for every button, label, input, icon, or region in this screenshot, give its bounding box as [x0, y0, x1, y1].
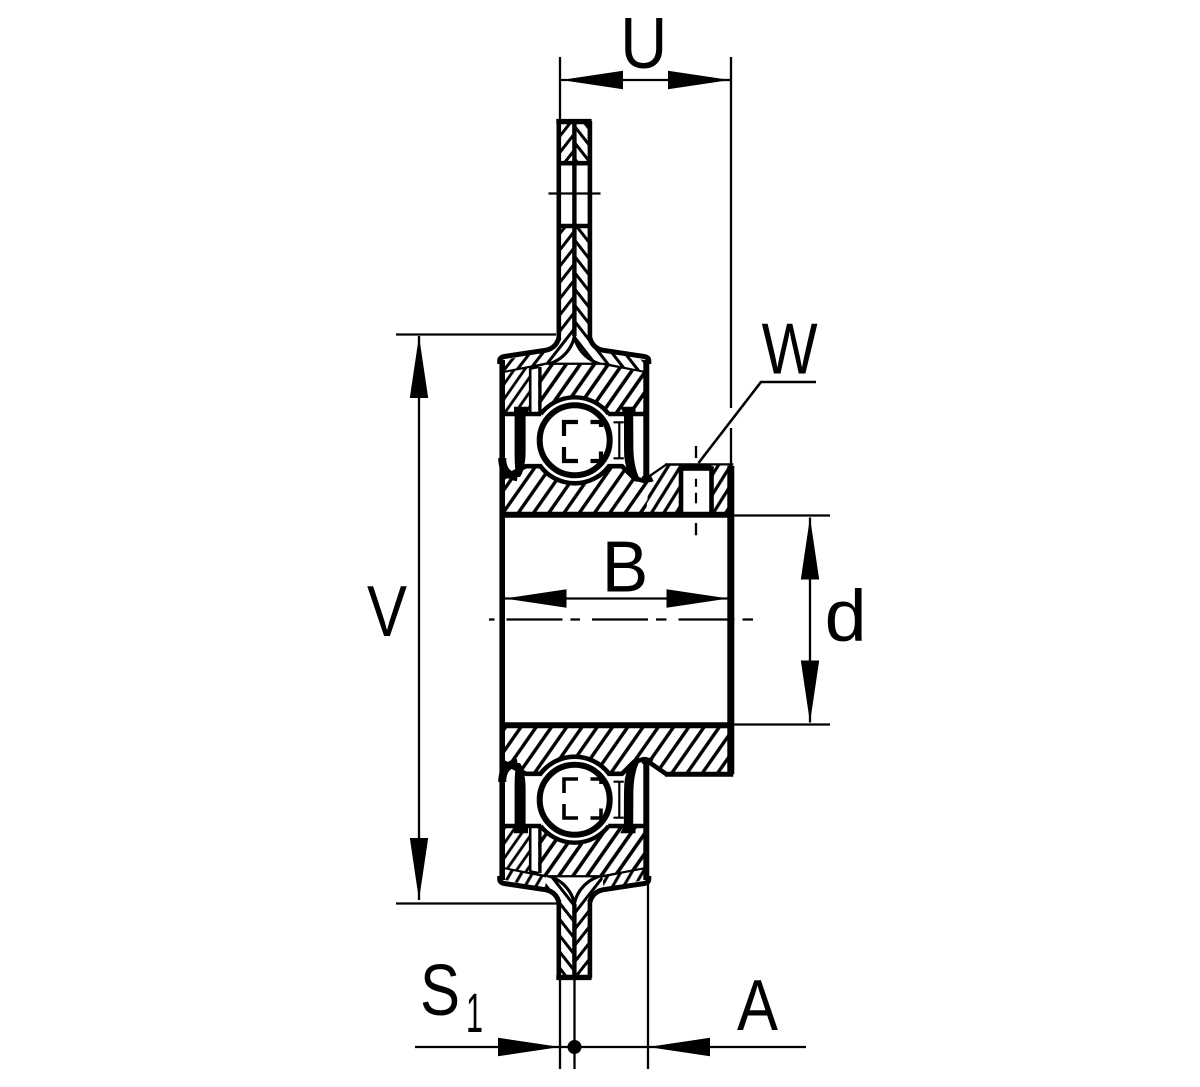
- upper chamber bottom-left dark corner: [502, 458, 517, 477]
- lower bearing top line left segment: [500, 824, 541, 829]
- svg-text:U: U: [620, 4, 667, 84]
- set screw center dashes inside: [695, 479, 697, 504]
- bottom extension line: housing face: [647, 883, 649, 1069]
- svg-text:W: W: [762, 309, 818, 389]
- upper outer raceway arc: [541, 397, 609, 414]
- upper housing outer outline left: [500, 338, 559, 364]
- upper bearing bottom line left segment: [500, 412, 541, 417]
- svg-text:B: B: [602, 528, 649, 608]
- upper ear hatched zone right of screw: [712, 466, 734, 515]
- upper right seal (black): [620, 407, 639, 482]
- upper snap ring lines right of ball: [614, 422, 624, 458]
- upper outer-ring seat line under wedge: [547, 363, 602, 367]
- lower-left stud half (hatched section): [545, 875, 574, 978]
- svg-text:d: d: [825, 577, 867, 657]
- sleeve / inner ring right edge: [727, 466, 734, 774]
- upper outer ring block (hatched): [538, 365, 644, 414]
- set screw axis dashes: [695, 446, 697, 535]
- svg-text:1: 1: [466, 981, 483, 1044]
- center axis dash-dot line: [489, 618, 753, 620]
- upper stud top cap: [556, 119, 591, 124]
- upper left slot edge line: [529, 369, 532, 414]
- upper ear top edge: [665, 463, 733, 468]
- left wall / flange edge: [499, 360, 505, 880]
- lower bearing top line right segment: [608, 824, 648, 829]
- right wall foot blend lower: [644, 760, 653, 764]
- upper stud thread boundary line 1: [557, 161, 592, 166]
- upper-left housing sheet + stud half (hatched section): [501, 121, 574, 373]
- lower inner ring + sleeve ear (hatched): [502, 724, 733, 774]
- dimension B line: [505, 597, 729, 599]
- sleeve bottom line: [500, 722, 734, 728]
- upper ear hatched zone left of screw: [646, 466, 681, 514]
- lower ball dashed square: [564, 779, 601, 818]
- bottom extension line: center axis: [573, 980, 575, 1069]
- dimension U arrowhead right: [668, 71, 730, 89]
- upper stud outline left edge: [556, 121, 561, 340]
- lower housing shell inner line left: [505, 867, 547, 875]
- dimension U/B extension line right: [730, 57, 732, 466]
- lower outer-ring seat line under wedge: [547, 873, 602, 877]
- lower seam split curve right: [574, 875, 602, 904]
- dimension d extension line top: [733, 514, 830, 516]
- dimension V arrowhead top: [410, 336, 428, 398]
- upper stud center seam: [572, 122, 576, 336]
- upper housing outer outline right: [590, 338, 649, 364]
- upper outer ring left edge line: [538, 367, 541, 414]
- lower right seal (black): [620, 758, 639, 833]
- lower outer raceway arc: [541, 826, 609, 843]
- lower housing outer outline left: [500, 876, 559, 902]
- A arrowhead (points left): [648, 1038, 710, 1056]
- S1 arrowhead (points right): [498, 1038, 560, 1056]
- lower stud outline right edge: [588, 900, 593, 978]
- bottom extension line: stud left edge: [559, 980, 561, 1069]
- upper housing shell inner line left: [505, 365, 547, 373]
- upper left seal (black): [514, 407, 528, 477]
- upper left strip (hatched): [505, 368, 530, 414]
- upper stud outline right edge: [588, 121, 593, 340]
- upper bearing bottom line right segment: [608, 412, 648, 417]
- lower-right shell band (hatched section): [602, 867, 647, 889]
- sleeve top line: [500, 512, 734, 518]
- lower ball: [540, 765, 610, 835]
- dimension B arrowhead right: [667, 589, 729, 607]
- dimension V extension line bottom: [396, 902, 559, 904]
- dimension V extension line top: [396, 333, 556, 335]
- upper inner ring top boundary: [502, 466, 667, 483]
- bottom dimension line S1/A: [415, 1046, 806, 1048]
- W leader line: [699, 382, 817, 463]
- lower seam split curve left: [547, 875, 575, 904]
- dimension d arrowhead bottom: [801, 661, 819, 723]
- set screw W (white with thick border): [681, 469, 712, 515]
- lower ear bottom edge: [665, 772, 733, 777]
- upper stud tick mark: [549, 192, 601, 194]
- upper ball: [540, 405, 610, 475]
- lower-left shell band (hatched section): [501, 867, 547, 889]
- dimension d line: [809, 518, 811, 723]
- svg-text:S: S: [420, 951, 460, 1031]
- upper-right housing sheet + stud half (hatched section): [574, 121, 647, 373]
- dimension V line: [418, 336, 420, 900]
- lower left seal (black): [514, 763, 528, 833]
- right wall foot blend upper: [644, 476, 653, 480]
- center axis dot: [568, 1040, 582, 1054]
- upper seam split curve left: [547, 336, 575, 365]
- lower inner ring bottom boundary: [502, 757, 667, 774]
- upper seam split curve right: [574, 336, 602, 365]
- lower left slot edge line: [529, 827, 532, 872]
- dimension d arrowhead top: [801, 518, 819, 580]
- right housing wall upper: [643, 360, 649, 478]
- dimension d extension line bottom: [733, 723, 830, 725]
- dimension U line: [561, 79, 730, 81]
- dimension U arrowhead left: [561, 71, 623, 89]
- lower housing shell inner line right: [602, 867, 644, 875]
- lower stud bottom cap: [556, 975, 591, 980]
- upper stud white mid section: [557, 165, 591, 225]
- lower snap ring lines right of ball: [614, 782, 624, 818]
- lower left strip (hatched): [505, 827, 530, 873]
- lower outer ring block (hatched): [538, 826, 644, 875]
- right housing wall lower: [643, 763, 649, 881]
- lower stud center seam: [572, 904, 576, 976]
- upper inner ring + sleeve ear (hatched): [502, 466, 733, 516]
- upper housing shell inner line right: [602, 365, 644, 373]
- dimension U extension line left: [559, 57, 561, 119]
- lower chamber top-left dark corner: [502, 763, 517, 782]
- dimension B arrowhead left: [505, 589, 567, 607]
- lower-right stud half (hatched section): [574, 875, 603, 978]
- upper stud thread boundary line 2: [557, 224, 592, 229]
- lower stud outline left edge: [556, 900, 561, 978]
- lower housing outer outline right: [590, 876, 649, 902]
- lower outer ring left edge line: [538, 826, 541, 873]
- svg-text:A: A: [737, 966, 778, 1046]
- upper ball dashed square: [564, 422, 601, 461]
- svg-text:V: V: [367, 572, 407, 652]
- dimension V arrowhead bottom: [410, 838, 428, 900]
